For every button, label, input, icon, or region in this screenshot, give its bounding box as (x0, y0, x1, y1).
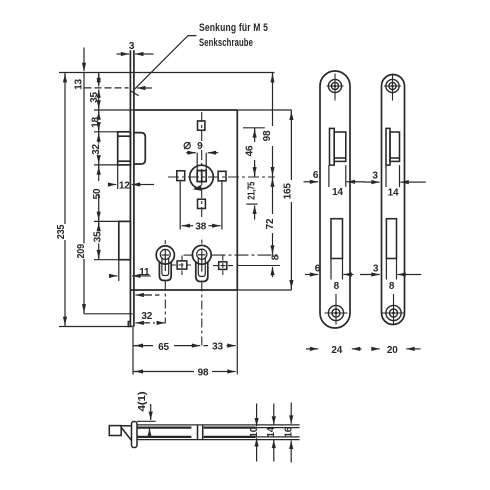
follower square spindle hole 9mm (197, 171, 206, 182)
dim 209 line (76, 48, 133, 314)
plate 2 bottom screw hole (382, 294, 405, 325)
left dimension chain line (98, 73, 100, 260)
svg-text:12: 12 (119, 181, 130, 192)
fixing hole bottom square (198, 199, 206, 208)
svg-text:3: 3 (372, 171, 378, 182)
svg-text:8: 8 (389, 281, 395, 292)
svg-text:3: 3 (373, 264, 379, 275)
svg-text:72: 72 (265, 218, 276, 229)
dim Ø9 (spindle square) (184, 141, 218, 170)
follower horizontal centerline (168, 176, 275, 178)
plate 2 dim 20 (372, 345, 421, 356)
dim 235 line (56, 73, 67, 327)
plate 2 deadbolt cutout (386, 219, 396, 259)
chain labels 13,35,18,32,50,35 (74, 79, 104, 243)
faceplate (Stulp) front edge, 3 thick (130, 50, 134, 326)
plate 1 dim 24 (306, 345, 362, 356)
svg-text:8: 8 (334, 281, 340, 292)
svg-text:18: 18 (91, 117, 102, 128)
svg-text:14: 14 (332, 187, 343, 198)
side view latch bevel (121, 426, 132, 441)
leader line to countersink mark (131, 36, 196, 96)
svg-text:13: 13 (74, 79, 85, 90)
svg-text:9: 9 (197, 141, 203, 152)
latch bolt head (Falle) (118, 132, 131, 165)
profile cylinder hole 2 (at 65) (192, 245, 211, 281)
svg-text:235: 235 (56, 224, 67, 239)
dim 8 (cylinder axis to screw axis) (270, 254, 281, 277)
svg-text:38: 38 (195, 222, 206, 233)
dim 98 bottom (133, 368, 236, 379)
dim 12 (latch width) (109, 165, 155, 192)
side view faceplate top reference line (137, 420, 156, 422)
svg-text:6: 6 (315, 264, 321, 275)
svg-text:3: 3 (129, 41, 135, 52)
faceplate bottom line to 235 dim (59, 326, 130, 328)
deadbolt extension lines (94, 221, 119, 259)
profile cylinder hole 1 (at 32) (156, 246, 174, 281)
svg-text:32: 32 (141, 311, 152, 322)
plate 2 top screw hole (384, 74, 401, 101)
fixing hole right square (218, 171, 226, 181)
follower index triangle (193, 185, 202, 191)
svg-text:98: 98 (198, 368, 209, 379)
right: extension from top fixing square (243, 127, 265, 129)
dim 21,75 (246, 165, 257, 220)
svg-text:Senkung für M 5: Senkung für M 5 (199, 22, 268, 34)
side view inner line extensions (256, 428, 300, 437)
plate 2 dim 3 / 14 (364, 165, 426, 198)
svg-text:98: 98 (262, 130, 273, 141)
svg-text:14: 14 (266, 426, 277, 437)
side view faceplate (edge-on) (132, 422, 138, 448)
svg-text:35: 35 (93, 231, 104, 242)
svg-text:10: 10 (249, 426, 260, 437)
case top extension right to 165 dim (237, 109, 291, 111)
follower circle (nut) (190, 165, 214, 189)
faceplate bottom foot (128, 322, 134, 327)
svg-text:4(1): 4(1) (137, 392, 148, 412)
case bottom extension right to 165 dim (237, 289, 291, 291)
svg-text:32: 32 (91, 144, 102, 155)
side view latch head (109, 426, 121, 436)
dim 46 (244, 128, 255, 177)
plate 1 latch cutout (330, 128, 346, 165)
case top extension left to chain dim (94, 109, 134, 111)
svg-text:33: 33 (212, 342, 223, 353)
dim 38 (between side fixing holes) (180, 182, 222, 233)
svg-text:165: 165 (283, 183, 294, 200)
lock case outline (130, 110, 237, 290)
svg-text:209: 209 (76, 243, 87, 258)
plate 1 outline (320, 71, 350, 328)
svg-text:6: 6 (313, 170, 319, 181)
cylinders horizontal centerline (184, 254, 281, 256)
fixing screw square between cylinders (177, 261, 187, 269)
svg-text:20: 20 (387, 345, 398, 356)
countersink dashed centerline (85, 87, 153, 89)
dim 4(1) (137, 392, 151, 436)
fixing screw square right of cylinder 2 (219, 262, 227, 270)
svg-text:24: 24 (331, 345, 342, 356)
dim 3 (faceplate thickness) (117, 41, 154, 54)
dim 14 (case height) (266, 404, 277, 462)
svg-text:11: 11 (139, 267, 150, 278)
svg-text:14: 14 (388, 187, 399, 198)
note text "Senkung für M5 / Senkschraube" (199, 22, 268, 49)
callout arrow at case bottom left (136, 294, 160, 296)
dim 32 horizontal (faceplate to cylinder 1) (136, 311, 166, 323)
plate 2 dim 3 / 8 lower (360, 259, 421, 293)
plate 1 dim 6 / 14 (304, 165, 366, 198)
dim 98 vertical (262, 73, 273, 177)
top reference line (faceplate top edge extended) (59, 72, 275, 74)
svg-text:Senkschraube: Senkschraube (199, 37, 253, 49)
plate 1 dim 6 / 8 lower (305, 259, 354, 293)
deadbolt (Riegel) (119, 221, 131, 259)
plate 1 deadbolt cutout (331, 219, 343, 259)
plate 1 bottom screw hole (325, 294, 348, 325)
svg-text:65: 65 (158, 342, 169, 353)
side view cylinder divider (198, 425, 203, 440)
plate 1 top screw hole (327, 74, 344, 101)
svg-text:35: 35 (89, 92, 100, 103)
side view case body inner thick walls (137, 428, 256, 437)
cylinder 2 centerline (201, 240, 203, 346)
dim 165 (283, 110, 294, 290)
dim 65 / 33 line (133, 342, 236, 353)
bottom extension lines (133, 290, 237, 375)
cylinder 1 centerline (164, 240, 166, 323)
svg-text:8: 8 (270, 254, 281, 260)
fixing hole top square (198, 121, 205, 130)
extension from screw square to 8-dim (237, 265, 280, 267)
plate 2 latch cutout (386, 128, 400, 165)
svg-text:46: 46 (244, 145, 255, 156)
svg-text:50: 50 (92, 188, 103, 199)
svg-text:21,75: 21,75 (246, 181, 257, 199)
dim 10 (249, 404, 260, 462)
plate 2 outline (382, 75, 405, 325)
dim 72 (265, 177, 276, 255)
fixing hole left square (177, 171, 185, 181)
dim 16 (284, 403, 295, 463)
svg-text:16: 16 (284, 426, 295, 437)
latch tail inside case (134, 133, 145, 164)
side view case body outer lines (137, 425, 300, 440)
follower vertical centerline (201, 112, 203, 218)
latch extension lines to chain dim (94, 132, 118, 165)
dim 11 (deadbolt protrusion) (110, 260, 151, 281)
